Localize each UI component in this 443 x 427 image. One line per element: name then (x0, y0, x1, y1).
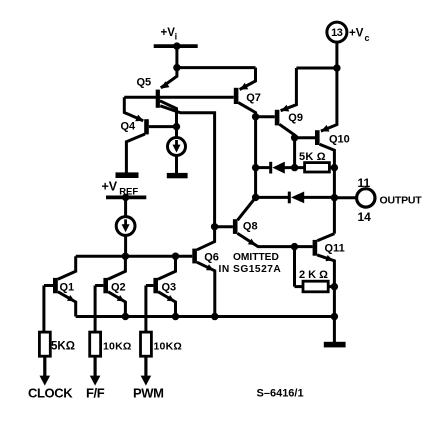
svg-text:Q1: Q1 (60, 282, 75, 294)
svg-text:F/F: F/F (86, 386, 105, 401)
svg-text:Q4: Q4 (121, 121, 137, 133)
svg-text:Q7: Q7 (246, 92, 261, 104)
svg-text:OUTPUT: OUTPUT (380, 194, 423, 206)
svg-text:OMITTED: OMITTED (233, 252, 279, 263)
svg-text:5KΩ: 5KΩ (51, 340, 75, 352)
svg-text:+V: +V (161, 27, 176, 39)
svg-text:S–6416/1: S–6416/1 (257, 387, 304, 399)
svg-text:REF: REF (119, 187, 138, 198)
svg-text:10KΩ: 10KΩ (103, 340, 131, 352)
svg-text:Q11: Q11 (325, 242, 345, 254)
svg-text:14: 14 (358, 210, 372, 224)
svg-text:11: 11 (358, 176, 371, 190)
svg-text:PWM: PWM (133, 386, 164, 401)
svg-text:+V: +V (102, 180, 118, 194)
svg-text:Q6: Q6 (204, 251, 219, 263)
svg-text:+V: +V (349, 28, 364, 40)
svg-text:Q2: Q2 (111, 282, 126, 294)
svg-text:IN SG1527A: IN SG1527A (219, 264, 282, 275)
svg-text:5K Ω: 5K Ω (299, 151, 326, 163)
svg-text:i: i (175, 32, 178, 42)
svg-text:Q5: Q5 (137, 76, 152, 88)
svg-text:Q9: Q9 (288, 112, 303, 124)
svg-text:10KΩ: 10KΩ (154, 340, 182, 352)
svg-text:Q3: Q3 (162, 282, 177, 294)
svg-text:2 K Ω: 2 K Ω (299, 269, 328, 281)
svg-text:Q8: Q8 (243, 220, 258, 232)
svg-text:c: c (365, 33, 370, 43)
svg-text:CLOCK: CLOCK (28, 386, 73, 401)
svg-text:13: 13 (331, 27, 343, 39)
svg-text:Q10: Q10 (329, 133, 350, 145)
